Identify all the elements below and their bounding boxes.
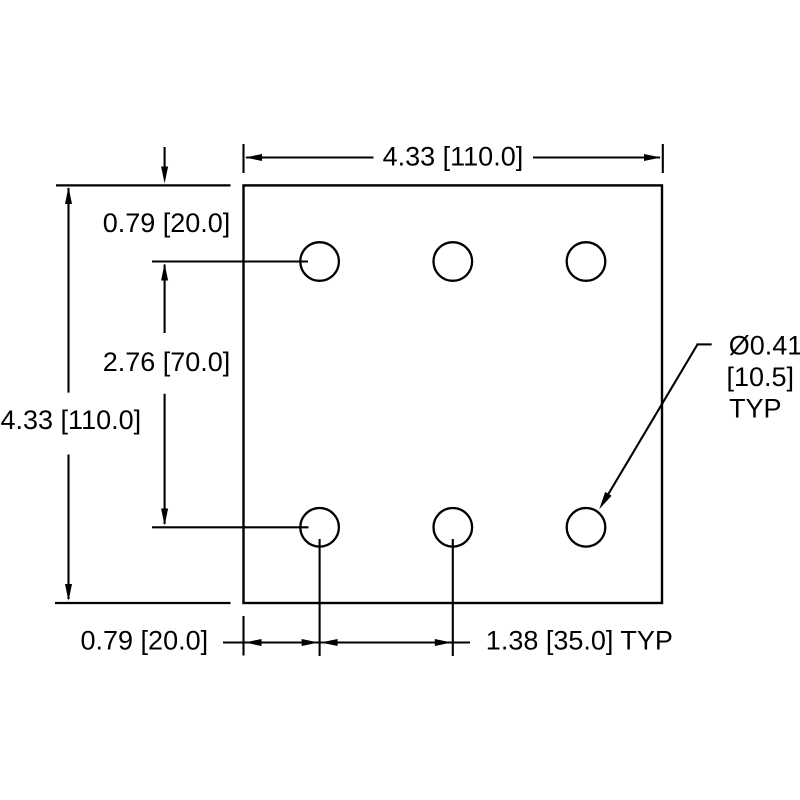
top dimension extension line left xyxy=(242,144,244,173)
hole H5 (bottom-middle) xyxy=(434,508,473,547)
hole H2 (top-middle) xyxy=(434,242,473,281)
hole H3 (top-right) xyxy=(567,242,606,281)
bottom edge extension line (left of plate) xyxy=(55,602,231,604)
0.79 top dimension text 0.79 [20.0] xyxy=(103,208,231,238)
left dimension line upper segment xyxy=(65,187,72,393)
top edge extension line (left of plate) xyxy=(56,184,231,186)
top dimension line left segment xyxy=(245,154,374,161)
2.76 dimension upper segment xyxy=(161,264,168,334)
bottom dimension arrow right-out xyxy=(435,639,452,646)
leader note text Ø0.41 xyxy=(729,330,800,360)
left dimension line lower segment xyxy=(65,455,72,602)
svg-text:Ø0.41: Ø0.41 xyxy=(729,330,800,360)
2.76 dimension text 2.76 [70.0] xyxy=(103,347,231,377)
leader line diagonal segment xyxy=(599,344,697,509)
leader note text TYP xyxy=(729,394,782,424)
bottom dimension text 0.79 [20.0] xyxy=(81,625,209,655)
svg-text:1.38 [35.0] TYP: 1.38 [35.0] TYP xyxy=(486,625,673,655)
svg-text:0.79 [20.0]: 0.79 [20.0] xyxy=(103,208,231,238)
svg-text:TYP: TYP xyxy=(729,394,782,424)
bottom dimension line xyxy=(223,641,470,643)
center line bottom row (to hole H4) xyxy=(152,526,309,528)
center line top row (to hole H1) xyxy=(152,260,308,262)
top dimension extension line right xyxy=(662,144,664,173)
hole H1 (top-left) xyxy=(300,242,339,281)
bottom dimension arrow left-in xyxy=(321,639,338,646)
bottom dimension text 1.38 [35.0] TYP xyxy=(486,625,673,655)
top dimension text 4.33 [110.0] xyxy=(383,142,524,172)
plate outline xyxy=(244,185,663,603)
hole H6 (bottom-right) xyxy=(567,508,606,547)
bottom dimension arrow right-in xyxy=(302,639,319,646)
hole H4 (bottom-left) xyxy=(300,508,339,547)
svg-text:0.79 [20.0]: 0.79 [20.0] xyxy=(81,625,209,655)
svg-text:4.33 [110.0]: 4.33 [110.0] xyxy=(383,142,524,172)
svg-text:[10.5]: [10.5] xyxy=(727,362,795,392)
left dimension text 4.33 [110.0] xyxy=(1,405,142,435)
bottom dimension extension line at plate left edge xyxy=(242,616,244,656)
svg-text:2.76 [70.0]: 2.76 [70.0] xyxy=(103,347,231,377)
center line below hole H5 xyxy=(452,539,454,656)
leader note text [10.5] xyxy=(727,362,795,392)
2.76 dimension lower segment xyxy=(161,394,168,526)
bottom dimension arrow left-out xyxy=(245,639,262,646)
top dimension line right segment xyxy=(533,154,661,161)
0.79 top dimension down arrow xyxy=(161,147,168,184)
leader line horizontal segment xyxy=(697,343,712,345)
center line below hole H4 xyxy=(319,539,321,656)
svg-text:4.33 [110.0]: 4.33 [110.0] xyxy=(1,405,142,435)
